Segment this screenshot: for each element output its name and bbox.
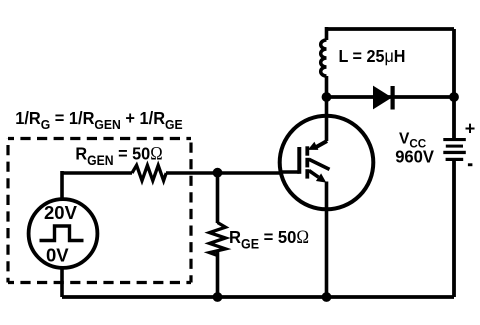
Q1 gate wire inside envelope [280, 170, 299, 174]
resistor RGEN zigzag [132, 165, 166, 180]
battery VCC plate 1 (long +) [443, 138, 466, 141]
wire: gate net from generator to RGEN [62, 171, 132, 175]
svg-text:0V: 0V [46, 244, 69, 265]
pulse waveform symbol [40, 226, 84, 241]
junction node diode/VCC [449, 92, 459, 102]
wire: gate net from RGEN to gate [166, 171, 299, 175]
Q1 body diagonal (middle) [309, 159, 330, 169]
value label VCC 960V [395, 130, 434, 166]
svg-text:RGE = 50Ω: RGE = 50Ω [229, 226, 309, 251]
battery VCC plate 2 (short) [446, 145, 463, 148]
polarity label - [468, 163, 473, 166]
svg-text:960V: 960V [395, 147, 434, 166]
pulse generator V1 circle [29, 199, 98, 268]
wire: freewheel diode branch [327, 95, 455, 99]
resistor RGE vertical leads [216, 173, 220, 297]
Q1 collector diagonal with arrow into channel [308, 141, 327, 150]
Q1 emitter lead [325, 182, 329, 298]
junction node gate/RGE [213, 168, 223, 178]
svg-text:L = 25μH: L = 25μH [339, 46, 406, 66]
battery VCC plate 3 (long) [443, 151, 466, 154]
svg-text:+: + [465, 118, 476, 138]
transistor Q1 (IGBT) envelope circle [280, 116, 374, 210]
Q1 channel bar segment 3 [305, 169, 309, 178]
Q1 gate bar [297, 147, 301, 174]
diode D1 triangle [374, 87, 392, 109]
svg-text:1/RG = 1/RGEN + 1/RGE: 1/RG = 1/RGEN + 1/RGE [15, 109, 182, 132]
Q1 channel bar segment 2 [305, 158, 309, 168]
value label RGEN = 50 ohm [75, 143, 162, 168]
inductor L top lead [325, 27, 329, 40]
pulse generator top lead [60, 171, 64, 199]
svg-text:20V: 20V [44, 202, 78, 223]
wire: VCC right rail lower [452, 159, 456, 297]
Q1 collector lead [325, 97, 329, 141]
junction node RGE/emitter bottom [213, 292, 223, 302]
formula label 1/RG = 1/RGEN + 1/RGE [15, 109, 182, 132]
battery VCC plate 4 (short) [446, 158, 464, 161]
value label RGE = 50 ohm [229, 226, 309, 251]
Q1 channel bar segment 1 [305, 146, 309, 155]
resistor RGE zigzag [210, 223, 226, 256]
wire: top rail [327, 27, 455, 31]
inductor L coil (4 loops) [321, 40, 327, 76]
junction node inductor/collector [322, 92, 332, 102]
Q1 emitter diagonal with arrow [309, 171, 326, 183]
inductor L bottom lead [325, 76, 329, 97]
pulse generator bottom lead [60, 269, 64, 297]
value label L = 25uH [339, 46, 406, 66]
wire: bottom return rail [62, 295, 454, 299]
svg-text:RGEN = 50Ω: RGEN = 50Ω [75, 143, 162, 168]
diode D1 cathode bar [391, 86, 395, 110]
dashed enclosure box (gate drive network) [8, 139, 191, 283]
junction node emitter/bottom rail [322, 292, 332, 302]
wire: VCC right rail upper [452, 29, 456, 139]
